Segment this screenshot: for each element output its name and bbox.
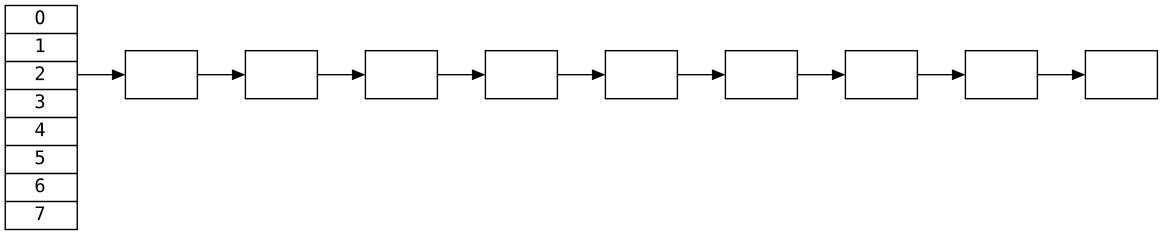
bucket label 7 xyxy=(36,206,45,220)
bucket label 5 xyxy=(36,150,44,164)
arrow box6 to box7 : head xyxy=(832,69,846,80)
bucket label 6 xyxy=(36,178,45,192)
list node box 2 xyxy=(245,51,317,99)
bucket label 2 xyxy=(36,66,44,80)
list node box 9 xyxy=(1085,51,1157,99)
row divider 2/3 xyxy=(5,89,77,91)
arrow box3 to box4 : head xyxy=(472,69,486,80)
row divider 6/7 xyxy=(5,201,77,203)
list node box 3 xyxy=(365,51,437,99)
arrow box7 to box8 : head xyxy=(952,69,966,80)
row divider 0/1 xyxy=(5,33,77,35)
bucket label 1 xyxy=(37,38,45,52)
row divider 1/2 xyxy=(5,61,77,63)
arrow bucket2 to box1 : head xyxy=(112,69,126,80)
list node box 5 xyxy=(605,51,677,99)
arrow box5 to box6 : head xyxy=(712,69,726,80)
list node box 7 xyxy=(845,51,917,99)
arrow box8 to box9 : head xyxy=(1072,69,1086,80)
bucket label 4 xyxy=(35,122,44,136)
list node box 1 xyxy=(125,51,197,99)
bucket label 3 xyxy=(36,94,45,108)
arrow box7 to box8 : line xyxy=(917,74,952,76)
arrow box3 to box4 : line xyxy=(437,74,472,76)
arrow bucket2 to box1 : line xyxy=(77,74,112,76)
arrow box6 to box7 : line xyxy=(797,74,832,76)
list node box 8 xyxy=(965,51,1037,99)
row divider 5/6 xyxy=(5,173,77,175)
arrow box4 to box5 : line xyxy=(557,74,592,76)
arrow box4 to box5 : head xyxy=(592,69,606,80)
list node box 6 xyxy=(725,51,797,99)
row divider 4/5 xyxy=(5,145,77,147)
arrow box2 to box3 : line xyxy=(317,74,352,76)
list node box 4 xyxy=(485,51,557,99)
arrow box2 to box3 : head xyxy=(352,69,366,80)
arrow box1 to box2 : head xyxy=(232,69,246,80)
arrow box1 to box2 : line xyxy=(197,74,232,76)
arrow box8 to box9 : line xyxy=(1037,74,1072,76)
row divider 3/4 xyxy=(5,117,77,119)
bucket label 0 xyxy=(36,10,45,24)
arrow box5 to box6 : line xyxy=(677,74,712,76)
hash table outer border xyxy=(5,6,77,230)
